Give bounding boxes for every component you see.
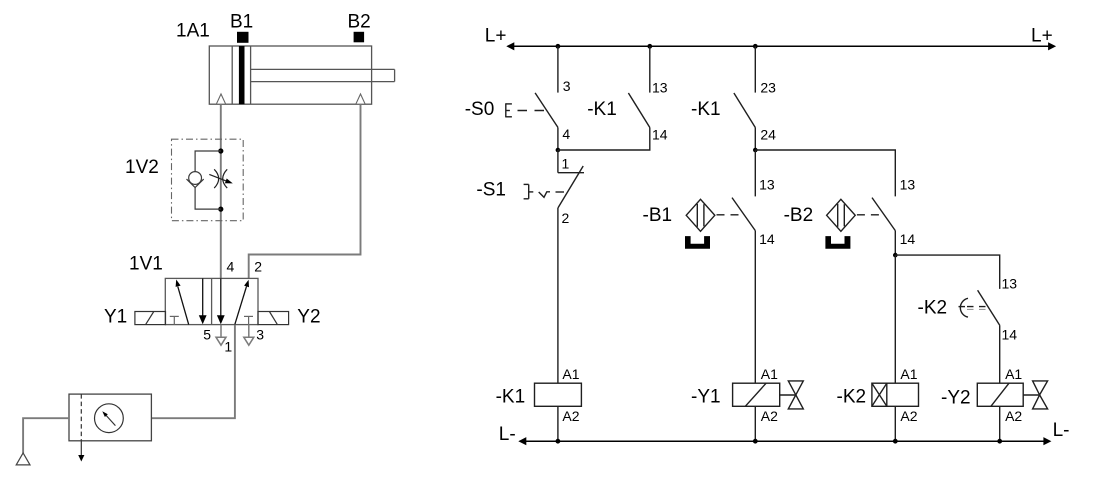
cylinder 1A1 right port <box>356 94 365 104</box>
wire cylinder left port to valve port 4 (through 1V2) <box>220 104 222 278</box>
svg-text:13: 13 <box>759 177 775 193</box>
cylinder 1A1 piston rod <box>251 69 395 81</box>
svg-text:14: 14 <box>1002 326 1018 342</box>
relay contact -K1 (13-14) lever <box>628 93 649 128</box>
svg-text:A1: A1 <box>1005 366 1022 382</box>
air service unit body <box>69 394 151 441</box>
valve 1V1 right position diagonal arrow (1 to 2) <box>235 280 249 325</box>
sensor B2 marker <box>354 32 365 43</box>
relay contact -K2 actuator arc <box>959 298 987 317</box>
wire L+ to K1b contact <box>754 46 756 92</box>
svg-text:B2: B2 <box>348 11 371 32</box>
node L- col5 <box>997 439 1002 444</box>
air service unit filter dashed line <box>80 394 82 441</box>
svg-text:-Y1: -Y1 <box>691 387 721 408</box>
svg-text:14: 14 <box>652 127 668 143</box>
relay contact -K2 lever <box>978 290 1000 325</box>
solenoid coil -Y2 <box>977 381 1047 409</box>
sensor contact -B2 lever <box>872 198 895 231</box>
valve 1V1 left position diagonal arrow <box>176 280 189 325</box>
wire valve port 1 to air service unit <box>151 325 235 419</box>
wire coil Y1 to L- <box>754 406 756 441</box>
svg-text:1V2: 1V2 <box>125 157 159 178</box>
svg-text:13: 13 <box>900 177 916 193</box>
svg-text:4: 4 <box>227 258 235 274</box>
node L- col1 <box>556 439 561 444</box>
solenoid Y2 <box>258 312 289 325</box>
wire S1 to coil K1 <box>557 208 559 383</box>
svg-text:A2: A2 <box>900 408 917 424</box>
relay contact -K1 (23-24) lever <box>734 93 755 128</box>
wire coil K1 to L- <box>557 406 559 441</box>
switch -S1 fixed contact bar <box>558 172 584 174</box>
svg-text:-K1: -K1 <box>496 387 526 408</box>
return rail L- <box>518 437 1051 445</box>
svg-text:Y2: Y2 <box>297 307 320 328</box>
svg-text:-B1: -B1 <box>643 205 673 226</box>
node 1V2 bottom junction <box>218 207 223 212</box>
wire B2 to junction <box>894 231 896 256</box>
wire latch branch junction to K1 contact <box>558 128 650 151</box>
svg-text:14: 14 <box>900 231 916 247</box>
node 1V2 top junction <box>218 148 223 153</box>
valve 1V1 right position vertical down arrow (4 to 5) <box>217 278 225 324</box>
svg-text:24: 24 <box>760 127 776 143</box>
svg-text:-S0: -S0 <box>465 99 495 120</box>
svg-text:1: 1 <box>224 338 232 354</box>
svg-text:-K1: -K1 <box>691 99 721 120</box>
svg-text:2: 2 <box>254 258 262 274</box>
switch -S1 actuator <box>524 184 564 198</box>
exhaust port 5 silencer triangle <box>216 325 226 346</box>
svg-text:3: 3 <box>563 78 571 94</box>
svg-text:13: 13 <box>652 79 668 95</box>
magnet symbol of B1 <box>685 236 710 249</box>
supply rail L+ <box>506 42 1056 50</box>
cylinder 1A1 body <box>209 46 371 104</box>
pushbutton -S0 actuator <box>506 103 546 117</box>
svg-text:13: 13 <box>1002 275 1018 291</box>
valve 1V1 body <box>165 278 258 324</box>
node L+ col1 <box>556 44 561 49</box>
svg-text:-S1: -S1 <box>476 179 506 200</box>
wire junction to S1 <box>557 150 559 173</box>
air service unit pressure gauge <box>95 404 124 433</box>
svg-text:A2: A2 <box>1005 408 1022 424</box>
wire coil Y2 to L- <box>999 406 1001 441</box>
svg-text:A2: A2 <box>761 408 778 424</box>
wire K2 contact to coil Y2 <box>999 325 1001 383</box>
wire coil K2 to L- <box>894 406 896 441</box>
node junction B2/K2 <box>893 253 898 258</box>
proximity sensor -B2 diamond <box>827 199 885 231</box>
cylinder 1A1 left port <box>216 94 225 104</box>
solenoid coil -Y1 <box>733 381 804 409</box>
svg-text:-Y2: -Y2 <box>941 388 971 409</box>
node L+ col3 <box>753 44 758 49</box>
magnet symbol of B2 <box>825 236 850 249</box>
wire air service unit to supply source <box>23 418 69 453</box>
node L+ col2 <box>647 44 652 49</box>
svg-text:14: 14 <box>759 231 775 247</box>
wire K1b to junction <box>754 128 756 151</box>
switch -S1 contact lever <box>558 166 583 208</box>
svg-text:-K2: -K2 <box>837 387 867 408</box>
wire junction to coil K2 <box>894 255 896 383</box>
relay coil -K1 <box>535 383 582 406</box>
sensor B1 marker <box>237 32 249 43</box>
svg-text:A2: A2 <box>562 408 579 424</box>
wire junction to B1 contact <box>754 150 756 196</box>
valve 1V1 left position vertical down arrow <box>199 278 207 324</box>
wire branch junction to B2 column <box>755 150 895 196</box>
relay coil -K2 with remanence box <box>872 383 919 406</box>
svg-text:4: 4 <box>562 126 570 142</box>
compressed air source triangle <box>16 453 30 465</box>
svg-text:2: 2 <box>562 210 570 226</box>
flow control 1V2 enclosure dash-dot box <box>172 139 244 221</box>
proximity sensor -B1 diamond <box>686 199 744 231</box>
svg-text:23: 23 <box>760 79 776 95</box>
exhaust port 3 silencer triangle <box>244 325 254 346</box>
svg-text:1A1: 1A1 <box>176 21 210 42</box>
node junction S0/K1 <box>556 148 561 153</box>
wire L+ to K1 contact <box>649 46 651 92</box>
wire B1 to coil Y1 <box>754 231 756 384</box>
node junction K1b/B1 <box>753 148 758 153</box>
pushbutton -S0 contact lever <box>535 93 558 128</box>
svg-text:3: 3 <box>256 327 264 343</box>
node L- col4 <box>893 439 898 444</box>
cylinder 1A1 piston <box>232 46 250 104</box>
solenoid Y1 <box>135 312 166 325</box>
check valve in 1V2 <box>187 151 221 209</box>
svg-text:L-: L- <box>499 424 516 445</box>
wire L+ to S0 <box>557 46 559 92</box>
svg-text:L-: L- <box>1053 420 1070 441</box>
sensor contact -B1 lever <box>732 198 755 231</box>
svg-text:A1: A1 <box>562 366 579 382</box>
wire branch junction to K2 contact column <box>895 255 999 289</box>
svg-text:B1: B1 <box>230 11 253 32</box>
wire S0 to junction <box>557 127 559 150</box>
svg-text:1V1: 1V1 <box>129 254 163 275</box>
wire cylinder right port to valve port 2 <box>249 104 361 278</box>
node L- col3 <box>753 439 758 444</box>
throttle (adjustable) in 1V2 <box>209 169 227 188</box>
svg-text:A1: A1 <box>900 366 917 382</box>
svg-text:-B2: -B2 <box>784 205 814 226</box>
svg-text:-K1: -K1 <box>587 99 617 120</box>
valve 1V1 left position blocked port T <box>170 316 179 324</box>
svg-text:-K2: -K2 <box>918 297 948 318</box>
svg-text:L+: L+ <box>485 26 507 47</box>
air service unit drain arrow <box>78 441 84 462</box>
svg-text:5: 5 <box>203 327 211 343</box>
svg-text:A1: A1 <box>761 366 778 382</box>
svg-text:1: 1 <box>562 155 570 171</box>
valve 1V1 right position blocked port T <box>244 316 253 324</box>
svg-text:Y1: Y1 <box>104 307 127 328</box>
